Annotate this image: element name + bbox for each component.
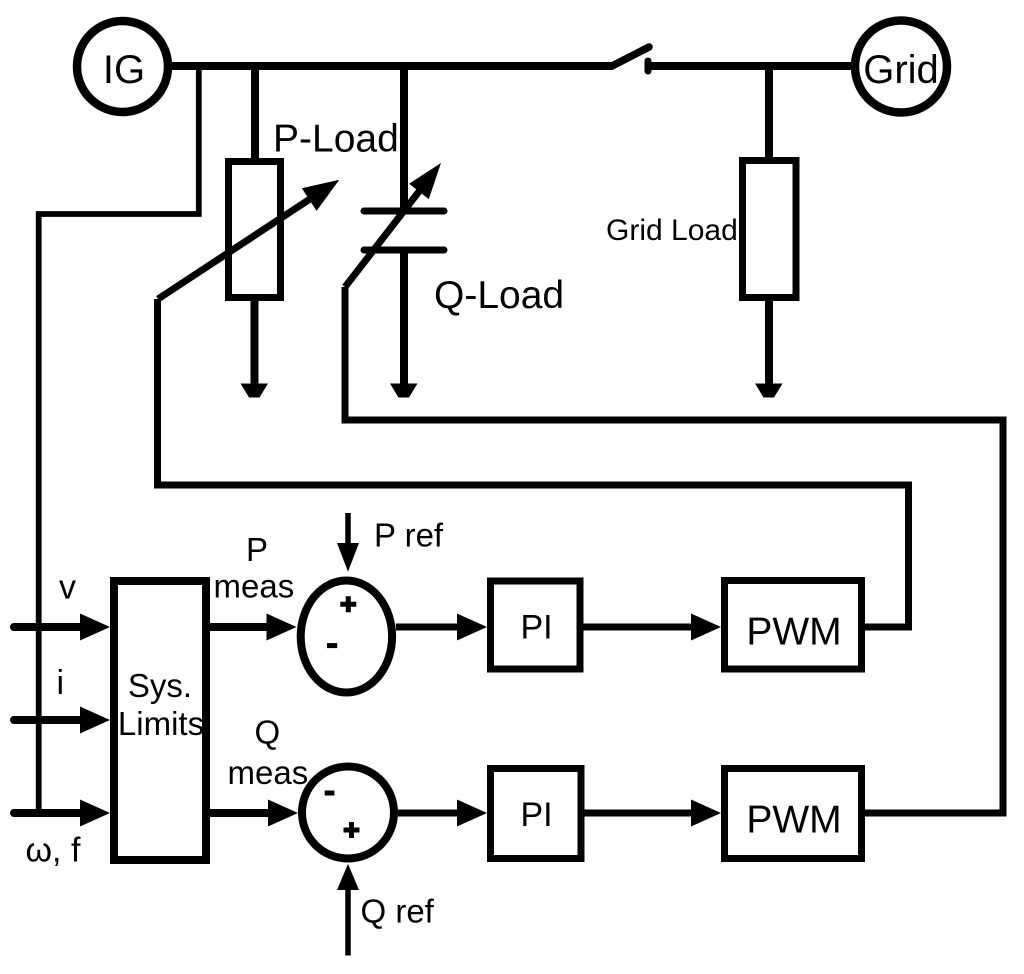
svg-text:Grid: Grid	[863, 48, 939, 92]
P-Load variable arrow	[158, 180, 339, 299]
Q-Load feed wire	[400, 66, 408, 209]
Grid Load wire to ground	[765, 297, 773, 385]
arrow summing junction 1 to PI 1	[396, 614, 487, 641]
ground Grid Load	[755, 384, 783, 398]
input arrow omega f	[14, 800, 110, 827]
summing junction 2	[302, 767, 394, 859]
Q meas arrow from sys limits to summing junction 2	[210, 800, 298, 827]
PWM block 2	[725, 769, 862, 859]
resistor Grid Load	[743, 161, 797, 298]
P feedback wire from PWM1 to P-Load arrow	[158, 299, 909, 627]
P ref input arrow	[337, 513, 359, 572]
svg-text:P-Load: P-Load	[273, 118, 399, 161]
Q-Load variable arrow	[345, 163, 441, 287]
svg-text:P: P	[246, 531, 268, 568]
generator circle IG	[77, 21, 168, 112]
capacitor Q-Load top plate	[364, 208, 444, 215]
arrow PI 1 to PWM 1	[584, 614, 722, 641]
svg-text:Sys.: Sys.	[128, 667, 192, 704]
capacitor Q-Load bottom plate	[364, 247, 444, 254]
ground P-Load	[241, 384, 269, 398]
P meas arrow from sys limits to summing junction 1	[210, 614, 297, 641]
svg-text:i: i	[57, 664, 65, 702]
ground Q-Load	[390, 384, 418, 398]
svg-text:IG: IG	[103, 48, 145, 92]
svg-text:v: v	[59, 569, 76, 607]
input arrow i	[14, 707, 110, 734]
Q feedback wire from PWM2 to Q-Load arrow	[345, 287, 1003, 813]
Q-Load wire to ground	[400, 251, 408, 385]
summing junction 1	[301, 581, 392, 693]
grid circle	[855, 21, 947, 113]
breaker switch blade	[612, 47, 649, 66]
svg-text:Q ref: Q ref	[361, 893, 435, 930]
svg-text:Grid Load: Grid Load	[606, 214, 738, 247]
PI block 2	[491, 769, 582, 859]
svg-text:Limits: Limits	[118, 705, 204, 742]
resistor P-Load	[229, 162, 281, 298]
P-Load wire to ground	[251, 298, 259, 385]
arrow summing junction 2 to PI 2	[398, 800, 487, 827]
measurement tap wire from bus to omega-f input	[39, 66, 199, 813]
PI block 1	[491, 581, 581, 669]
svg-text:PI: PI	[520, 796, 552, 834]
PWM block 1	[725, 581, 862, 670]
bus wire right segment	[651, 62, 857, 70]
svg-text:ω, f: ω, f	[26, 832, 81, 870]
svg-text:PWM: PWM	[746, 611, 841, 654]
bus wire left segment	[166, 62, 613, 70]
svg-text:Q: Q	[255, 714, 281, 751]
P-Load feed wire	[251, 66, 259, 162]
sys limits block	[114, 581, 206, 860]
svg-text:meas: meas	[228, 754, 309, 791]
svg-text:PWM: PWM	[746, 799, 841, 842]
arrow PI 2 to PWM 2	[585, 800, 722, 827]
breaker fixed contact	[645, 61, 652, 71]
Grid Load feed wire	[765, 66, 773, 161]
input arrow v	[14, 614, 110, 641]
svg-text:PI: PI	[520, 609, 552, 647]
Q ref input arrow	[337, 864, 359, 956]
svg-text:P ref: P ref	[374, 517, 444, 554]
svg-text:meas: meas	[214, 568, 295, 605]
svg-text:Q-Load: Q-Load	[434, 274, 564, 317]
